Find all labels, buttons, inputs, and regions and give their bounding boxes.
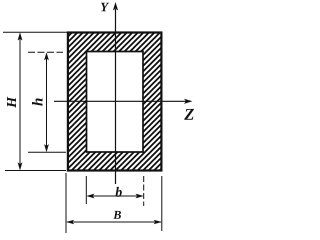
B dimension right extension line [161,176,163,231]
svg-text:b: b [115,186,122,201]
B dimension line [67,221,161,223]
h dimension bottom arrowhead [44,144,49,152]
svg-text:Z: Z [183,105,194,124]
svg-text:H: H [5,96,20,109]
svg-text:Y: Y [100,0,109,14]
H dimension line [19,34,21,169]
b dimension left extension line [85,176,87,204]
B dimension right arrowhead [154,220,162,224]
inner contour of section (hole) [87,52,144,153]
svg-text:h: h [31,98,47,106]
b dimension line [88,195,142,197]
H dimension top extension line [3,31,67,33]
B dimension left extension line [65,173,67,233]
b dimension right extension line (dashed) [143,176,145,206]
b dimension right arrowhead [136,194,144,199]
outer contour of section [68,33,161,171]
h dimension top arrowhead [44,52,49,60]
hatched box-section wall (outer rect minus inner hole) [67,32,162,171]
Y axis arrowhead [113,2,118,11]
Z axis line [54,100,187,102]
B dimension left arrowhead [66,220,74,224]
svg-text:B: B [112,208,121,222]
H dimension bottom arrowhead [18,162,23,170]
b dimension left arrowhead [86,194,94,199]
h dimension bottom extension line [28,151,66,153]
h dimension top extension line (dashed) [28,51,63,53]
Z axis arrowhead [184,99,193,104]
h dimension line [46,54,48,150]
H dimension bottom extension line [5,170,66,172]
H dimension top arrowhead [18,32,23,40]
Y axis line [115,9,117,184]
